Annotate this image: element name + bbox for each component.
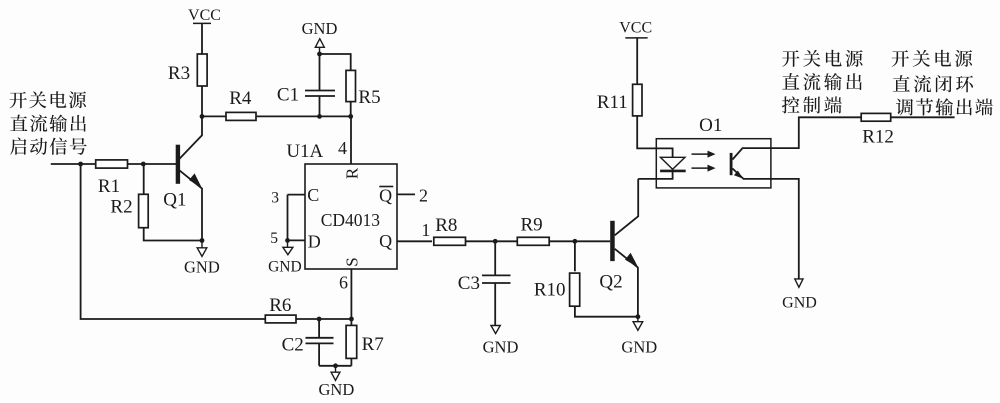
Q2 collector wire: [615, 179, 639, 235]
label control line3: [782, 96, 842, 113]
wire R8 to C3 node: [466, 240, 518, 242]
svg-text:6: 6: [339, 272, 348, 292]
O1 light arrow 1: [692, 153, 712, 155]
junction at input/R6 branch: [78, 162, 83, 167]
svg-text:R4: R4: [229, 88, 252, 109]
junction R7 top / pin6: [349, 317, 354, 322]
bracket C-D tie: [287, 195, 289, 241]
capacitor C3 top lead: [494, 241, 496, 275]
svg-text:GND: GND: [184, 257, 220, 276]
svg-text:C2: C2: [282, 335, 304, 356]
svg-text:D: D: [308, 232, 321, 252]
svg-text:R6: R6: [269, 295, 291, 316]
svg-text:C3: C3: [458, 273, 480, 294]
wire junction to R4: [202, 115, 226, 117]
svg-text:O1: O1: [699, 115, 722, 136]
pin 3 stub: [288, 194, 306, 196]
VCC bar: [193, 22, 211, 24]
wire VCC to R3: [201, 23, 203, 54]
resistor R7 top lead: [350, 319, 352, 325]
label 开关电源直流闭环调节输出端 line1: [892, 50, 973, 67]
svg-text:C1: C1: [277, 84, 299, 105]
svg-text:1: 1: [421, 220, 430, 240]
pin 5 stub: [288, 239, 306, 241]
Q2 emitter wire: [615, 249, 638, 317]
wire R12 to output terminal: [891, 116, 955, 118]
svg-text:2: 2: [419, 185, 428, 205]
svg-text:CD4013: CD4013: [321, 210, 381, 230]
svg-text:GND: GND: [621, 337, 657, 356]
capacitor C1 bottom lead: [319, 96, 321, 116]
label 开关电源直流输出控制端 line1: [782, 50, 863, 67]
capacitor C3 plates: [482, 274, 511, 276]
junction R1/R2/base: [141, 162, 146, 167]
resistor R5: [346, 70, 356, 101]
junction Q2 emitter / R10: [636, 314, 641, 319]
O1 LED triangle: [660, 157, 685, 169]
wire pin 4 vertical: [350, 116, 352, 164]
pin 1 stub: [397, 240, 432, 242]
IC U1A CD4013 body: [305, 164, 397, 269]
junction C2 top: [317, 317, 322, 322]
node: input terminal 开关电源直流输出启动信号 label line1: [9, 91, 86, 108]
resistor R6: [265, 315, 296, 323]
svg-text:R3: R3: [168, 63, 190, 84]
junction R3/R4/collector: [200, 114, 205, 119]
resistor R8: [434, 237, 466, 245]
Q1 emitter arrowhead: [189, 173, 202, 188]
junction Q1 emitter / R2: [200, 238, 205, 243]
wire branch down to R6: [81, 164, 266, 319]
wire GND node to R5 top: [320, 54, 351, 70]
capacitor C2 bottom lead: [318, 343, 320, 365]
svg-text:VCC: VCC: [619, 20, 652, 37]
O1 light arrow 2: [692, 167, 712, 169]
resistor R10 bottom lead: [575, 306, 638, 317]
junction R10: [573, 239, 578, 244]
O1 phototransistor emitter: [733, 169, 771, 179]
svg-text:R: R: [343, 167, 362, 179]
svg-text:4: 4: [338, 138, 347, 158]
wire R11 to optocoupler: [637, 116, 656, 148]
Q1 collector wire: [180, 116, 203, 158]
svg-text:R11: R11: [597, 92, 628, 113]
capacitor C1 plates: [305, 90, 335, 92]
svg-text:R5: R5: [358, 87, 380, 108]
wire R5 bottom: [350, 102, 352, 117]
wire C2/R7 bottom join: [319, 365, 351, 367]
svg-text:R12: R12: [862, 126, 894, 147]
O1 emitter arrowhead: [734, 171, 743, 179]
svg-text:GND: GND: [319, 380, 355, 399]
capacitor C2 plates: [306, 337, 334, 339]
svg-text:GND: GND: [268, 258, 302, 275]
resistor R12: [861, 113, 891, 121]
wire R3 to collector junction: [201, 86, 203, 116]
resistor R9: [517, 237, 549, 245]
junction C3: [493, 239, 498, 244]
resistor R10 top lead: [574, 241, 576, 271]
svg-text:R10: R10: [534, 279, 566, 300]
wire input horizontal to Q1 base: [51, 163, 176, 165]
O1 LED cathode bar: [660, 170, 686, 173]
resistor R7: [346, 325, 357, 358]
resistor R10: [570, 273, 580, 306]
wire R2 top: [143, 164, 145, 194]
ground arrow right: [795, 279, 803, 287]
resistor R3: [197, 54, 207, 86]
optocoupler O1 body: [656, 139, 771, 188]
O1 LED cathode lead: [638, 171, 672, 179]
svg-text:5: 5: [270, 230, 278, 247]
junction bottom GND node: [333, 363, 338, 368]
transistor Q2 base bar: [610, 221, 615, 261]
resistor R1: [96, 160, 128, 168]
wire O1 emitter to GND: [771, 179, 799, 279]
svg-text:C: C: [307, 185, 319, 205]
input label line2: [10, 115, 86, 132]
svg-text:R7: R7: [362, 334, 384, 355]
svg-text:GND: GND: [483, 337, 519, 356]
ground arrow below Q2: [637, 317, 639, 322]
svg-text:Q2: Q2: [599, 272, 622, 293]
resistor R2: [139, 194, 149, 227]
svg-text:VCC: VCC: [188, 7, 221, 24]
wire R6 to R7 node: [296, 318, 351, 320]
Q1 emitter wire: [180, 170, 203, 240]
svg-text:R9: R9: [521, 215, 543, 236]
svg-text:Q1: Q1: [163, 190, 186, 211]
capacitor C2 top lead: [318, 319, 320, 338]
pin 6 wire: [350, 269, 352, 319]
resistor R7 bottom lead: [350, 358, 352, 365]
capacitor C1 top lead: [319, 54, 321, 91]
svg-text:R2: R2: [110, 197, 132, 218]
svg-text:R8: R8: [435, 215, 457, 236]
transistor Q1 base bar: [176, 145, 180, 184]
wire VCC to R11: [636, 38, 638, 84]
junction GND/C1/R5: [317, 52, 322, 57]
ground arrow pin 5: [287, 240, 289, 247]
ground arrow C3: [491, 326, 500, 334]
O1 phototransistor bar: [730, 153, 733, 175]
svg-text:3: 3: [271, 190, 279, 207]
Q2 emitter arrowhead: [625, 253, 638, 268]
capacitor C3 bottom lead: [494, 283, 496, 326]
ground (top, C1/R5): [315, 39, 324, 48]
input label line3: [10, 138, 87, 155]
label loop line3: [896, 98, 993, 115]
wire R9 to Q2 base: [549, 240, 610, 242]
svg-text:S: S: [343, 257, 362, 266]
resistor R11: [633, 84, 642, 116]
VCC right bar: [625, 37, 647, 39]
junction C1/bus: [317, 114, 322, 119]
wire R2 bottom to emitter node: [144, 227, 202, 240]
svg-text:GND: GND: [782, 295, 817, 312]
junction R5/pin4 bus: [348, 114, 353, 119]
resistor R4: [226, 112, 256, 120]
ground arrow C2/R7: [335, 366, 337, 372]
O1 LED anode lead: [656, 148, 672, 157]
label control line2: [782, 73, 862, 90]
junction pin5/GND: [285, 238, 290, 243]
svg-text:R1: R1: [98, 176, 120, 197]
pin 2 stub: [397, 193, 415, 195]
svg-text:GND: GND: [302, 19, 338, 38]
svg-text:U1A: U1A: [286, 141, 323, 162]
wire R4 to C1/R5 node: [256, 115, 351, 117]
label loop line2: [893, 75, 973, 92]
svg-text:Q: Q: [379, 231, 392, 251]
O1 phototransistor collector: [733, 148, 771, 159]
ground arrow below Q1: [201, 241, 203, 248]
svg-text:Q: Q: [379, 186, 392, 206]
wire O1 collector to R12 line: [771, 117, 861, 148]
